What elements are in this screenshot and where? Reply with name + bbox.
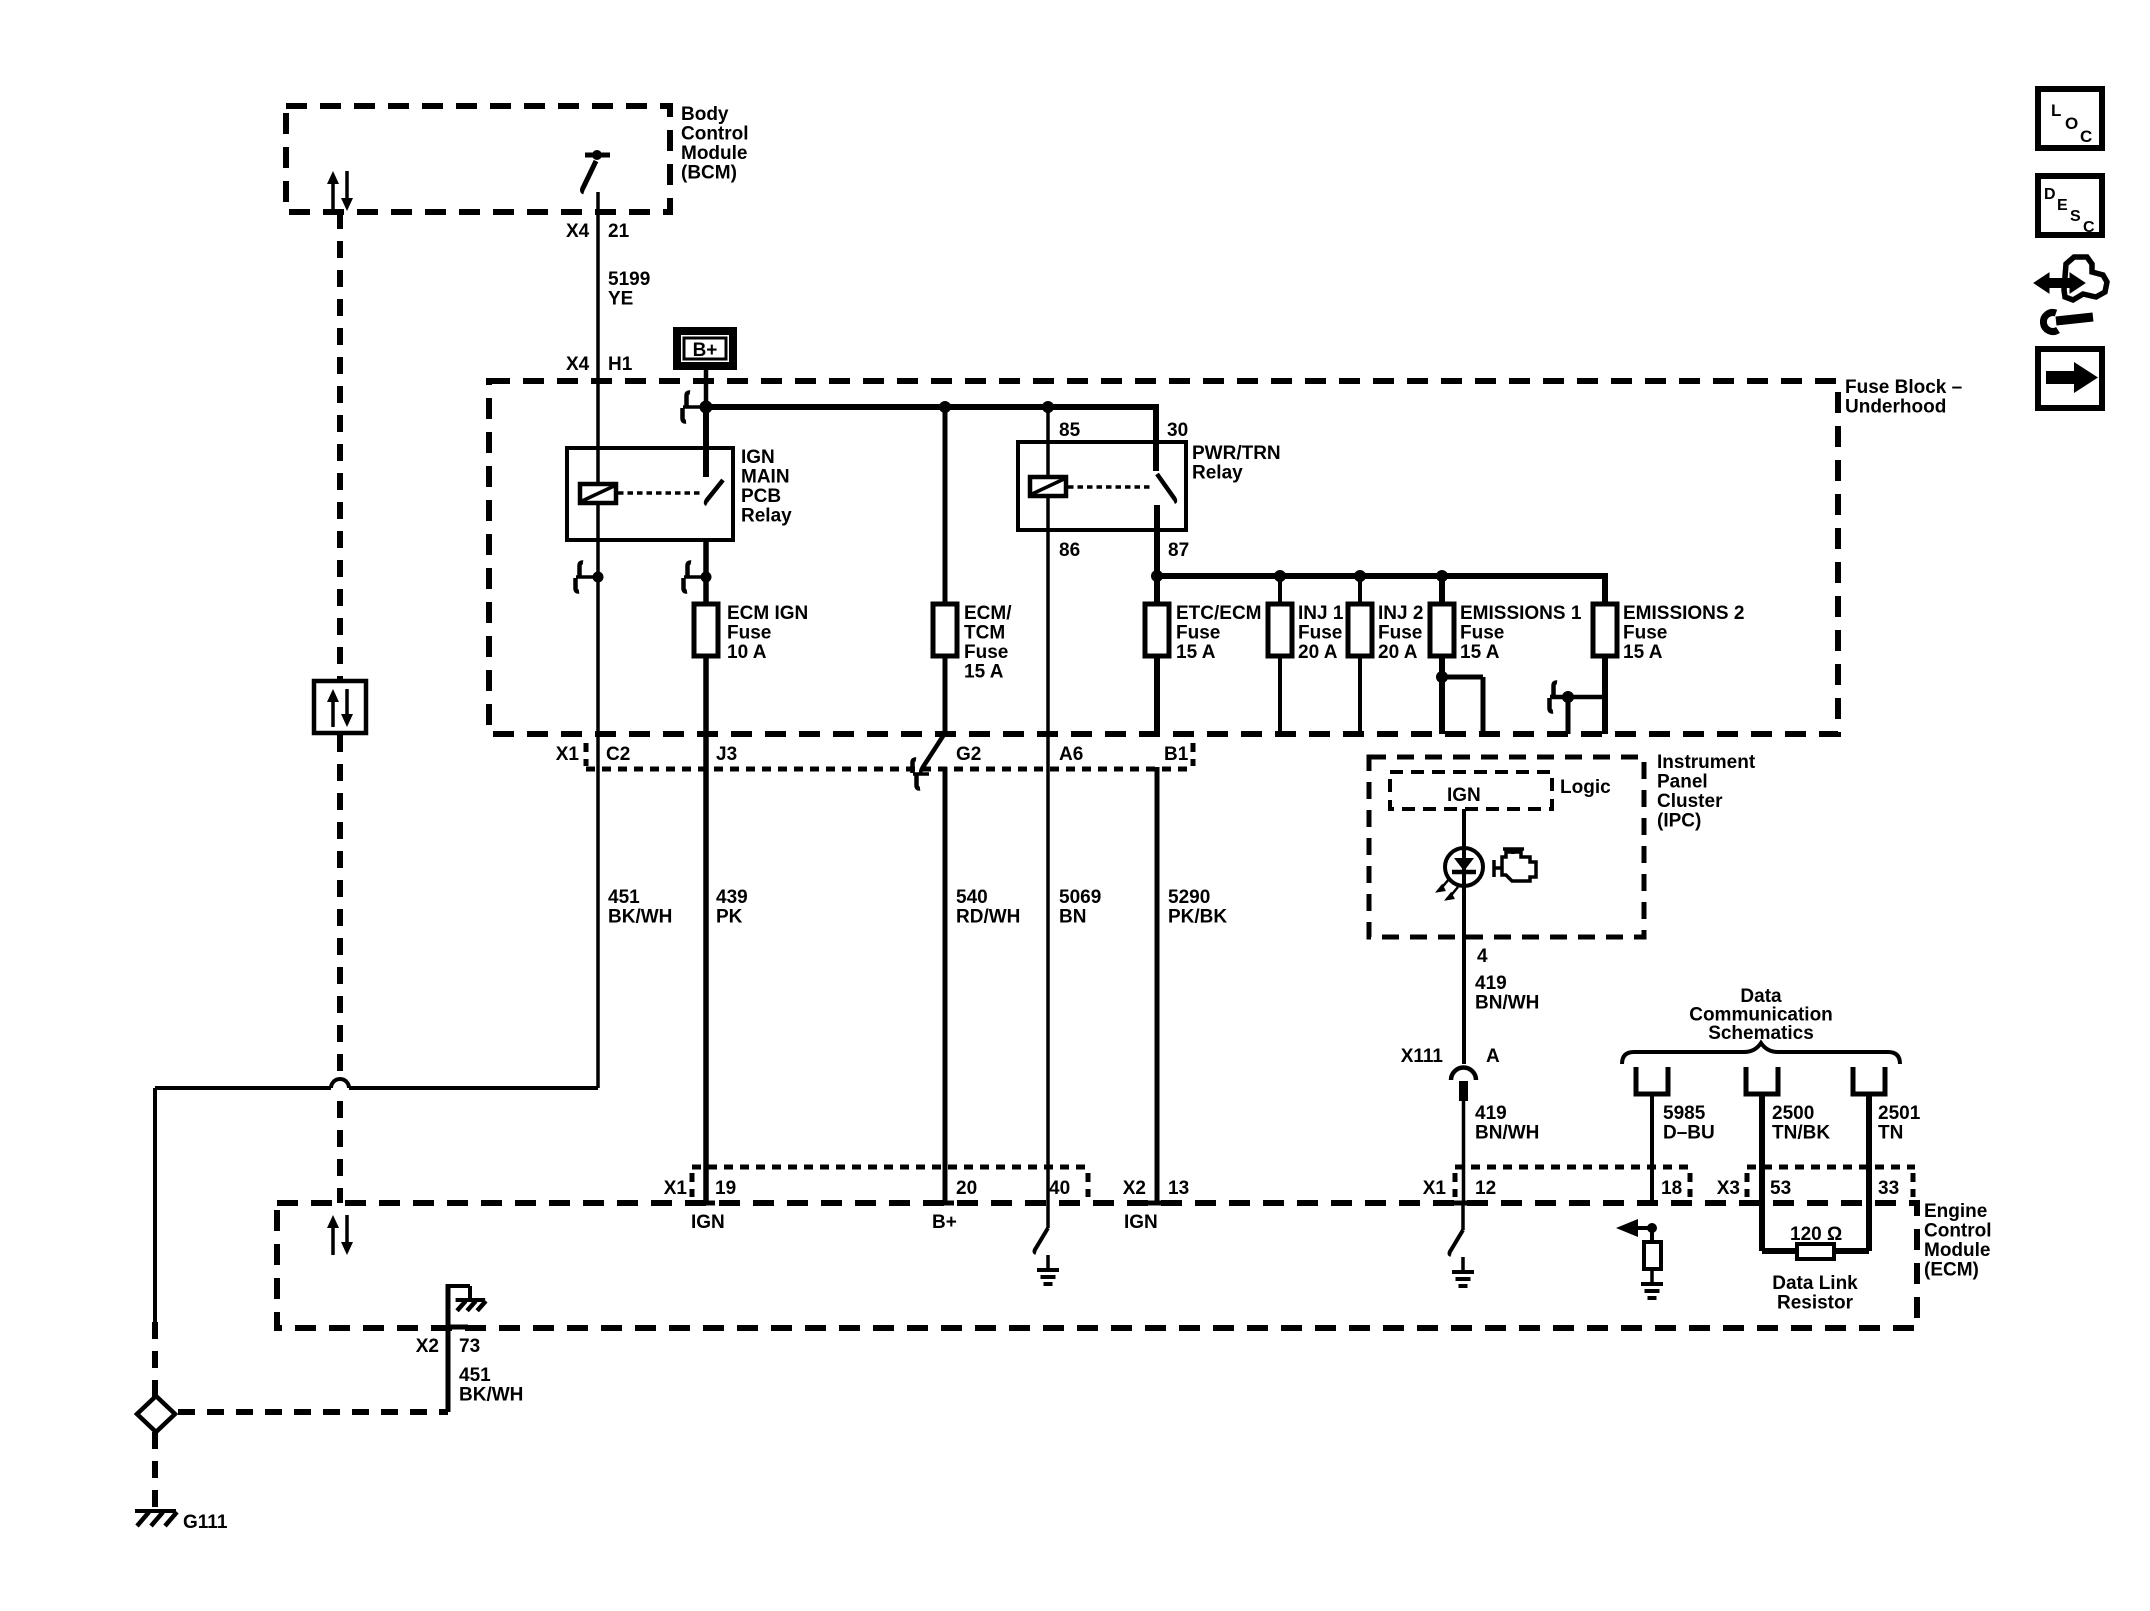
svg-text:EMISSIONS 2: EMISSIONS 2 [1623,603,1744,624]
svg-text:A: A [1486,1046,1500,1067]
svg-text:BN/WH: BN/WH [1475,1123,1539,1144]
svg-text:Engine: Engine [1924,1201,1987,1222]
wire: EMISSIONS 2 second pin down [1566,697,1571,734]
svg-text:2500: 2500 [1772,1103,1814,1124]
updown arrows inside BCM [331,181,335,211]
svg-text:Fuse: Fuse [1298,623,1342,644]
svg-text:73: 73 [459,1336,480,1357]
svg-text:B+: B+ [693,340,718,361]
svg-text:PCB: PCB [741,486,781,507]
svg-text:18: 18 [1661,1178,1682,1199]
svg-text:X2: X2 [416,1336,439,1357]
pin 18 internal: signal arrow [1647,1223,1657,1233]
module box: Fuse Block - Underhood, dashed [489,381,1838,734]
svg-text:12: 12 [1475,1178,1496,1199]
wire: 419 BN/WH to X111 [1462,937,1466,1064]
ground G111 (chassis) [135,1509,176,1513]
fuse F: EMISSIONS 1 Fuse 15 A [1430,604,1454,656]
svg-text:BN/WH: BN/WH [1475,993,1539,1014]
dashed wire from diamond to G111 [152,1432,158,1507]
wire: 87 output down from relay [1154,530,1160,734]
svg-text:S: S [2070,208,2081,225]
svg-text:419: 419 [1475,1103,1507,1124]
earth ground at pin 12 [1461,1257,1465,1271]
connector row X1/X2 into ECM (dotted) [692,1165,1090,1170]
wire: B+ bus inside fuse block [704,404,1156,410]
svg-text:L: L [2051,101,2061,120]
wire: ground run down the far left [153,1088,157,1322]
connector row X1 (right) into ECM (dotted) [1455,1165,1690,1170]
svg-text:G111: G111 [183,1512,228,1533]
svg-text:10 A: 10 A [727,642,767,663]
wire: EMISSIONS 2 branch from bus corner [1602,573,1608,734]
svg-text:RD/WH: RD/WH [956,907,1020,928]
svg-text:X4: X4 [566,354,590,375]
in-line connector X111 terminal A [1451,1068,1476,1081]
svg-text:ETC/ECM: ETC/ECM [1176,603,1262,624]
svg-text:86: 86 [1059,540,1080,561]
dashed wire continues to ECM [337,735,343,1074]
svg-text:E: E [2057,197,2068,214]
svg-text:C: C [2083,219,2095,236]
wire: ECM IGN feed from relay switch down [703,540,709,1203]
relay U39: IGN MAIN PCB Relay box [567,448,733,540]
svg-text:D: D [2044,186,2056,203]
svg-text:EMISSIONS 1: EMISSIONS 1 [1460,603,1582,624]
svg-text:Fuse: Fuse [964,642,1008,663]
svg-text:5069: 5069 [1059,887,1101,908]
svg-text:120 Ω: 120 Ω [1790,1224,1842,1245]
svg-text:Relay: Relay [741,506,792,527]
svg-text:15 A: 15 A [1176,642,1216,663]
IGN MAIN relay coil-contact dashed link [618,491,700,495]
power feed B+ box [673,327,737,370]
IGN MAIN relay coil [580,484,616,503]
wire: pin 33 to data link resistor [1866,1203,1872,1251]
svg-text:15 A: 15 A [1623,642,1663,663]
svg-text:IGN: IGN [1447,785,1481,806]
module box: Instrument Panel Cluster (IPC), dashed [1369,757,1644,937]
fuse F: ECM/TCM Fuse 15 A [933,604,957,656]
svg-text:Fuse: Fuse [727,623,771,644]
svg-text:X4: X4 [566,221,590,242]
wire: 5069 BN from relay 86 down to ECM pin 40 [1046,496,1050,1203]
svg-text:5985: 5985 [1663,1103,1706,1124]
svg-text:Cluster: Cluster [1657,791,1723,812]
junction node on bus at ECM/TCM branch [939,401,951,413]
clip connector below relay switch pin [684,575,706,579]
svg-text:TCM: TCM [964,623,1005,644]
svg-text:Fuse: Fuse [1623,623,1667,644]
icon: vehicle with arrows and wrench [2034,257,2107,331]
svg-text:Fuse Block –: Fuse Block – [1845,377,1962,398]
svg-text:TN: TN [1878,1123,1903,1144]
svg-text:X2: X2 [1123,1178,1146,1199]
LED emission arrows [1438,879,1449,891]
clip connector on EMISSIONS 2 output [1550,695,1605,700]
svg-text:C2: C2 [606,744,630,765]
wire: INJ 2 branch [1358,576,1362,734]
svg-text:X1: X1 [556,744,580,765]
svg-text:YE: YE [608,289,633,310]
fuse F: EMISSIONS 2 Fuse 15 A [1593,604,1617,656]
terminal for 5985 serial data [1636,1067,1668,1094]
svg-text:5199: 5199 [608,269,650,290]
svg-text:Underhood: Underhood [1845,397,1946,418]
connector row X1 under fuse block (dotted) [586,767,1193,772]
switch S inside BCM (ignition signal) [585,153,610,158]
svg-text:MAIN: MAIN [741,467,790,488]
resistor at pin 18 (pull-up) [1644,1242,1661,1269]
terminal for 2500 CAN high [1746,1067,1778,1094]
svg-text:C: C [2080,127,2092,146]
wire: ECM/TCM branch from bus [943,407,948,734]
svg-text:X111: X111 [1401,1046,1444,1067]
svg-text:Panel: Panel [1657,772,1708,793]
svg-text:O: O [2065,114,2078,133]
svg-text:ECM IGN: ECM IGN [727,603,808,624]
wire: 85 feed from bus into relay [1046,407,1050,477]
svg-text:ECM/: ECM/ [964,603,1012,624]
indicator LED (MIL) symbol [1445,848,1483,886]
wire: 30 feed, bus corner into relay [1153,404,1159,471]
wire: 540 RD/WH down to ECM pin 20 [943,767,948,1203]
PWR/TRN relay coil [1030,477,1066,496]
wire: ground run corner to the left [349,1086,598,1090]
fuse F: ECM IGN Fuse 10 A [694,604,718,656]
wire: 451 BK/WH return up into ECM pin X2-73 [446,1284,451,1412]
resistor R: 120 ohm Data Link Resistor [1797,1244,1834,1259]
svg-text:B+: B+ [932,1212,957,1233]
svg-text:INJ 1: INJ 1 [1298,603,1344,624]
connector row X3 into ECM (dotted) [1747,1165,1915,1170]
pin 12 internal switch to ground [1461,1203,1465,1230]
icon: forward arrow box [2038,349,2102,408]
svg-text:Control: Control [681,124,749,145]
wire: B+ feed down into fuse block [704,369,709,410]
module box: Engine Control Module (ECM), dashed [277,1203,1917,1328]
svg-text:5290: 5290 [1168,887,1210,908]
wire: 2501 TN down to ECM pin 33 [1866,1094,1872,1203]
svg-text:BN: BN [1059,907,1086,928]
clip connector below coil pin [576,575,598,579]
svg-text:87: 87 [1168,540,1189,561]
junction node INJ 1 branch [1274,570,1286,582]
svg-text:A6: A6 [1059,744,1083,765]
svg-text:Body: Body [681,104,729,125]
earth ground at pin 40 [1046,1255,1050,1269]
junction node at 87 bus [1151,570,1163,582]
svg-text:15 A: 15 A [964,662,1004,683]
fuse F: INJ 1 Fuse 20 A [1268,604,1292,656]
svg-text:Fuse: Fuse [1378,623,1422,644]
wire: 87 distribution bus [1157,573,1605,579]
svg-text:(IPC): (IPC) [1657,811,1701,832]
svg-text:Fuse: Fuse [1176,623,1220,644]
svg-text:439: 439 [716,887,748,908]
icon: DESC box [2038,176,2102,235]
svg-text:21: 21 [608,221,630,242]
svg-text:540: 540 [956,887,988,908]
svg-text:Module: Module [1924,1240,1991,1261]
svg-text:PWR/TRN: PWR/TRN [1192,443,1281,464]
svg-text:451: 451 [608,887,640,908]
wire: 5290 PK/BK down to ECM pin 13 [1155,767,1160,1203]
dashed wire to splice diamond [152,1322,158,1398]
svg-text:G2: G2 [956,744,981,765]
wire: INJ 1 branch [1278,576,1282,734]
svg-text:Fuse: Fuse [1460,623,1504,644]
terminal for 2501 CAN low [1853,1067,1885,1094]
svg-text:451: 451 [459,1365,491,1386]
svg-text:H1: H1 [608,354,633,375]
svg-text:Resistor: Resistor [1777,1293,1854,1314]
svg-text:Logic: Logic [1560,777,1611,798]
svg-text:53: 53 [1770,1178,1791,1199]
svg-text:IGN: IGN [1124,1212,1158,1233]
relay K: PWR/TRN Relay box [1018,442,1186,530]
svg-text:PK: PK [716,907,743,928]
svg-text:BK/WH: BK/WH [608,907,672,928]
junction node on bus at relay 85 branch [1042,401,1054,413]
logic box IGN inside IPC, dashed [1390,772,1552,809]
chassis ground inside ECM at X2-73 [456,1298,486,1302]
clip connector at B+ bus start [683,405,706,409]
pin 40 internal switch to ground [1046,1203,1050,1228]
svg-text:X3: X3 [1717,1178,1740,1199]
wire: 419 BN/WH from X111 to ECM pin 12 [1462,1101,1466,1203]
dashed wire from BCM down the left side [337,212,343,679]
svg-text:15 A: 15 A [1460,642,1500,663]
updown arrows box (in-line) [314,681,366,733]
updown arrows inside ECM [331,1225,335,1255]
svg-text:TN/BK: TN/BK [1772,1123,1830,1144]
wire: 2500 TN/BK down to ECM pin 53 [1759,1094,1765,1203]
svg-text:X1: X1 [1423,1178,1447,1199]
splice diamond node [137,1396,175,1432]
junction node below EMISSIONS 1 fuse [1436,671,1448,683]
wire: 5985 D-BU down to ECM pin 18 [1650,1094,1654,1203]
svg-text:Module: Module [681,143,748,164]
svg-text:20: 20 [956,1178,977,1199]
fuse F: INJ 2 Fuse 20 A [1348,604,1372,656]
wire: pin 53 to data link resistor [1759,1203,1765,1251]
PWR/TRN relay switch contact [1157,474,1175,502]
svg-text:Relay: Relay [1192,463,1243,484]
IGN MAIN relay switch contact [703,407,709,477]
svg-text:4: 4 [1477,946,1488,967]
svg-text:BK/WH: BK/WH [459,1385,523,1406]
svg-text:(ECM): (ECM) [1924,1260,1979,1281]
svg-text:INJ 2: INJ 2 [1378,603,1423,624]
wire: EMISSIONS 1 jog to second pin [1442,675,1483,680]
PWR/TRN relay coil-contact dashed link [1068,485,1150,489]
svg-text:2501: 2501 [1878,1103,1921,1124]
svg-text:(BCM): (BCM) [681,163,737,184]
svg-text:20 A: 20 A [1298,642,1338,663]
engine (MIL) icon [1494,849,1536,881]
wire: relay coil return (to 451 BK/WH) [596,503,600,1088]
svg-text:33: 33 [1878,1178,1899,1199]
svg-text:30: 30 [1167,420,1188,441]
svg-text:20 A: 20 A [1378,642,1418,663]
svg-text:419: 419 [1475,973,1507,994]
junction node EMISSIONS 1 branch [1436,570,1448,582]
earth ground below pin 18 resistor [1650,1269,1654,1283]
wire: 5199 YE from BCM switch down to IGN MAIN relay coil [596,192,600,484]
junction node INJ 2 branch [1354,570,1366,582]
terminal bar at ECM boundary X2-73 [448,1325,468,1330]
svg-text:40: 40 [1049,1178,1070,1199]
svg-text:IGN: IGN [691,1212,725,1233]
icon: LOC box [2038,89,2102,148]
fuse F: ETC/ECM Fuse 15 A [1145,604,1169,656]
svg-text:PK/BK: PK/BK [1168,907,1227,928]
svg-text:D–BU: D–BU [1663,1123,1715,1144]
svg-text:Data Link: Data Link [1772,1273,1858,1294]
svg-text:IGN: IGN [741,447,775,468]
wire: indicator return down to IPC edge [1462,886,1466,937]
svg-text:13: 13 [1168,1178,1189,1199]
svg-text:B1: B1 [1164,744,1189,765]
svg-text:Control: Control [1924,1221,1992,1242]
svg-text:85: 85 [1059,420,1081,441]
terminal bars at ECM pins 19 20 13 12 [697,1201,715,1206]
svg-text:Instrument: Instrument [1657,752,1756,773]
svg-text:X1: X1 [664,1178,688,1199]
brace over data link terminals [1622,1043,1900,1064]
wire: EMISSIONS 1 branch [1439,576,1445,734]
dashed wire from diamond right to X2-73 return [178,1409,448,1415]
module box: Body Control Module (BCM), dashed [286,106,670,212]
wire: from IGN logic down to indicator [1462,809,1466,848]
svg-text:J3: J3 [716,744,737,765]
in-line connector at G2 (angled blade + clip) [921,733,945,773]
svg-text:19: 19 [715,1178,736,1199]
